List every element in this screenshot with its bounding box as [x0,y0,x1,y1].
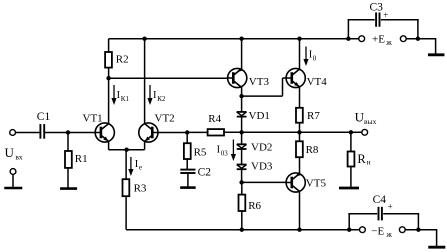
svg-text:К1: К1 [121,95,130,103]
ground bottom-right [428,246,445,249]
terminal -Eж right [399,227,405,233]
resistor R1 [65,133,72,189]
node VT5 base [239,180,243,184]
svg-text:н: н [367,158,371,167]
label IK1 [117,90,130,103]
resistor R7 [296,108,303,132]
wire VD2 to VD3 [241,149,243,165]
svg-text:К2: К2 [157,95,166,103]
label R1 [75,153,88,165]
wire VT1 collector to VT3 base [109,77,228,79]
node R2 bottom [106,76,110,80]
node VT4 rail [297,37,301,41]
wire top supply rail [109,38,436,55]
label Uвх [5,145,23,161]
wire VD1 to junction [241,117,243,145]
wire node to VT1 base [68,132,95,134]
svg-text:U: U [5,145,15,160]
wire VT2 emitter [144,141,146,149]
wire VT3 collector [241,87,243,112]
diode VD2 [237,144,247,149]
svg-text:ж: ж [385,38,392,47]
label I0 [309,50,317,63]
svg-text:ж: ж [385,230,392,239]
node output junction chain [239,130,243,134]
current arrow IK2 [147,85,152,105]
svg-text:VT1: VT1 [83,112,103,124]
wire to R3 [125,150,127,180]
terminal input ground [10,169,16,188]
wire C4 bridge [348,214,419,230]
svg-text:+Е: +Е [372,34,385,46]
ground R1 [60,187,77,190]
current arrow Ie [128,157,133,176]
capacitor C3 [376,12,379,26]
node R7 R8 output [297,130,301,134]
label C2 [198,167,212,179]
capacitor C2 [180,170,195,187]
resistor R3 [123,179,130,229]
wire VD3 to node [241,169,243,182]
wire VT5 emitter bottom [299,191,301,229]
current arrow I0 [303,47,308,67]
svg-text:VT3: VT3 [249,76,270,88]
svg-text:C4: C4 [373,194,387,206]
label R8 [306,144,319,156]
svg-text:R8: R8 [306,144,319,156]
transistor VT3 [228,68,247,88]
label C4 plus [388,202,393,212]
node input [66,130,70,134]
wire to VT4 base [242,78,286,96]
transistor VT1 [95,123,114,142]
node R6 bottom [240,228,244,232]
wire C3 bridge [348,20,419,39]
svg-text:R1: R1 [75,153,88,165]
label Uвых [355,110,377,126]
label VT4 [307,76,328,88]
resistor Rn [348,132,355,187]
svg-text:VD3: VD3 [251,161,273,173]
ground top-right [428,53,445,56]
svg-text:C3: C3 [370,2,384,14]
label R7 [307,110,320,122]
wire VT1 emitter [108,141,110,149]
label C3 plus [383,10,388,20]
node C3 right on rail [416,37,420,41]
node VT3 collector [239,94,243,98]
ground Rn [339,187,359,190]
svg-text:е: е [139,163,142,171]
label C3 [370,2,384,14]
label R3 [134,182,147,194]
wire VT1 collector [108,78,110,124]
terminal +Eж left [359,36,365,42]
node C4 left [347,228,351,232]
wire VT2 collector [144,39,146,124]
label VD3 [251,161,273,173]
resistor R5 [184,133,191,170]
label R5 [194,146,207,158]
svg-text:R3: R3 [134,182,147,194]
wire R4 to chain [224,131,242,133]
current arrow I03 [231,140,236,162]
svg-text:−Е: −Е [371,226,384,238]
label VT5 [306,177,327,189]
diode VD3 [237,165,247,170]
node emitters [124,148,128,152]
svg-text:VT2: VT2 [155,112,175,124]
svg-text:R4: R4 [208,113,221,125]
node VT2 collector rail [142,37,146,41]
svg-text:VT5: VT5 [306,177,327,189]
terminal -Eж left [360,227,366,233]
svg-text:R2: R2 [116,54,129,66]
svg-text:C2: C2 [198,167,212,179]
svg-text:0: 0 [313,55,317,63]
label IK2 [153,90,166,103]
svg-text:R7: R7 [307,110,320,122]
svg-text:+: + [383,10,388,20]
label I03 [217,144,229,157]
wire VT2 base to node [158,132,187,134]
svg-text:VT4: VT4 [307,76,328,88]
label -Еж [371,226,392,239]
transistor VT4 [286,68,305,87]
label Rн [357,152,370,167]
svg-text:R5: R5 [194,146,207,158]
label VD1 [249,110,270,122]
ground C2 [180,186,196,189]
label +Еж [372,34,392,47]
wire output line [242,131,362,133]
label R6 [248,200,261,212]
resistor R4 [208,129,224,135]
label VT2 [155,112,175,124]
current arrow IK1 [111,85,116,105]
svg-text:C1: C1 [37,111,51,123]
svg-text:03: 03 [221,149,229,157]
node Rn output [349,130,353,134]
label VT3 [249,76,270,88]
node VT5 emitter rail [297,228,301,232]
wire VT4 emitter [299,87,301,108]
ground input [4,187,22,190]
diode VD1 [237,112,247,117]
label C1 [37,111,51,123]
label C4 [373,194,387,206]
transistor VT2 [139,123,158,142]
resistor R8 [296,132,303,173]
svg-text:вх: вх [15,153,23,162]
wire emitter join [109,149,145,151]
label Ie [135,159,142,172]
svg-text:вых: вых [364,117,377,126]
node C3 left on rail [346,37,350,41]
label R4 [208,113,221,125]
svg-text:VD2: VD2 [251,141,272,153]
resistor R2 [105,39,112,78]
wire bottom rail [126,229,437,247]
wire VT4 collector [299,39,301,70]
capacitor C1 [16,124,69,139]
svg-text:R: R [357,152,366,166]
label R2 [116,54,129,66]
label VT1 [83,112,103,124]
wire node to VT5 base [242,181,286,183]
label VD2 [251,141,272,153]
terminal output [362,129,368,135]
svg-text:+: + [388,202,393,212]
node R5 top [185,130,189,134]
svg-text:VD1: VD1 [249,110,270,122]
wire VT3 emitter top [241,39,243,70]
node C4 right [416,228,420,232]
node VT3 rail [239,37,243,41]
terminal input [10,130,16,136]
resistor R6 [239,182,246,229]
svg-text:R6: R6 [248,200,261,212]
capacitor C4 [379,207,382,221]
wire node to R4 [187,131,207,133]
terminal +Eж right [400,36,406,42]
transistor VT5 [286,172,305,192]
